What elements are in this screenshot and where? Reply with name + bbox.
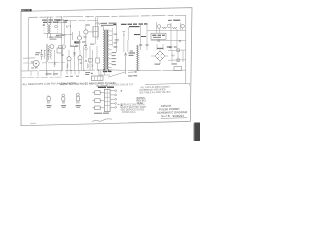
connector P1 bbox=[136, 45, 139, 71]
capacitor C13 bbox=[177, 59, 180, 62]
pilot lamp DS1 bbox=[55, 25, 58, 28]
capacitor C2 bbox=[47, 51, 50, 61]
wire right-mid verticals bbox=[141, 24, 147, 51]
wire lower-left dashed rail bbox=[22, 76, 62, 79]
transistor Q2 bbox=[77, 36, 81, 40]
wire TB1 to rail bbox=[47, 17, 50, 38]
pin number marks bbox=[121, 90, 122, 106]
resistor R7 bbox=[74, 52, 76, 57]
transformer T1 secondary winding bbox=[107, 30, 108, 69]
IC U4 body bbox=[104, 89, 110, 111]
capacitor C9 bbox=[169, 47, 177, 48]
wire gate input stubs bbox=[92, 93, 104, 108]
label stage row bbox=[70, 45, 87, 47]
svg-text:AM-1236: AM-1236 bbox=[22, 9, 31, 12]
capacitor C6 bbox=[85, 60, 87, 61]
wire second rail bbox=[56, 19, 98, 22]
label Q5 bbox=[35, 52, 41, 55]
logic gate B bbox=[95, 99, 101, 103]
wire arrow into P1 bbox=[128, 71, 137, 73]
tap voltage labels bbox=[112, 34, 118, 66]
transistor Q1 bbox=[84, 30, 88, 34]
connector J2 bbox=[57, 48, 62, 53]
label below lamp bbox=[31, 67, 37, 68]
label under P1 bbox=[128, 75, 137, 76]
transistor package Q11 outline bbox=[76, 93, 81, 108]
title block bbox=[157, 103, 188, 118]
svg-text:No # B: No # B bbox=[161, 114, 170, 118]
IC U3 label bbox=[98, 87, 114, 89]
relay K1 bbox=[23, 17, 35, 70]
wire top supply rail bbox=[29, 15, 186, 17]
wire Q1 Q2 leads bbox=[80, 26, 99, 50]
capacitor C15 bbox=[84, 37, 87, 38]
transistor Q5 bbox=[33, 60, 39, 66]
label below bridge bbox=[155, 63, 177, 64]
IC U4 caption bbox=[94, 113, 109, 114]
scan shadow edge bbox=[192, 124, 195, 142]
wire below-rail stubs bbox=[31, 70, 79, 76]
transistor Q8 bbox=[167, 24, 171, 28]
bridge rectifier BR1 bbox=[155, 51, 165, 61]
transistor Q15 bbox=[85, 48, 87, 50]
label fuse rating bbox=[64, 20, 67, 23]
connector J1 bbox=[174, 67, 182, 71]
capacitor C7 bbox=[80, 62, 82, 63]
resistor R2 bbox=[50, 51, 52, 59]
label bridge bbox=[157, 46, 171, 49]
wire main lower rail bbox=[22, 70, 186, 71]
transistor Q4 bbox=[78, 56, 82, 60]
transistor Q3 bbox=[67, 57, 71, 61]
transistor Q6 bbox=[50, 45, 54, 49]
junction dots bbox=[61, 16, 124, 71]
terminal block TB1 bbox=[44, 22, 58, 34]
wire T1 secondary lead bbox=[111, 28, 113, 46]
relay K3 bbox=[89, 59, 93, 63]
label fuse rating row bbox=[56, 35, 64, 38]
wire diagonal to switch bbox=[108, 72, 125, 77]
wire filter grid bbox=[168, 50, 186, 62]
net label +5V bbox=[129, 52, 136, 55]
wire mid verticals bbox=[62, 46, 97, 71]
label Q2 bbox=[74, 41, 79, 43]
smudge on bottom frame bbox=[30, 122, 36, 125]
transformer T1 secondary taps bbox=[109, 31, 113, 68]
IC U4 output pins bbox=[110, 90, 117, 108]
wire right rail vertical bbox=[185, 16, 187, 84]
wire mid vertical bus bbox=[95, 17, 98, 44]
label tap mid bbox=[114, 46, 118, 47]
transistor package Q9 outline bbox=[46, 96, 51, 108]
wire left vertical bus bbox=[62, 17, 71, 46]
capacitor C16 bbox=[130, 51, 133, 52]
wire T1 primary leads bbox=[101, 27, 104, 72]
net label AC LINE TO PWR bbox=[113, 23, 147, 37]
capacitor C8 bbox=[139, 45, 149, 46]
resistor R8 bbox=[87, 64, 93, 69]
svg-text:REPLACE ONLY WITH: REPLACE ONLY WITH bbox=[121, 103, 145, 106]
relay K5 bbox=[93, 27, 98, 38]
resistor R13 bbox=[58, 32, 73, 40]
capacitor C1 bbox=[40, 51, 43, 61]
resistor R5 bbox=[96, 23, 101, 25]
wire right-top cluster bbox=[147, 22, 186, 50]
junction dots mid-left bbox=[41, 50, 52, 51]
wire right lower rail bbox=[145, 83, 189, 85]
resistor R10 bbox=[162, 27, 167, 29]
transistor Q7 bbox=[157, 25, 161, 29]
resistor R12 bbox=[171, 55, 174, 57]
capacitor C14 bbox=[31, 62, 33, 63]
wire cluster bottom bbox=[44, 33, 62, 35]
junction dots T1 bottom bbox=[103, 69, 109, 72]
resistor R6 bbox=[67, 64, 69, 69]
label TB1 values bbox=[42, 19, 61, 25]
logic gate C bbox=[95, 106, 101, 110]
svg-text:FORM 223-A: FORM 223-A bbox=[122, 111, 136, 114]
relay K2 bbox=[96, 58, 100, 63]
rotary switch S2 bbox=[125, 53, 127, 75]
fuse F1 bbox=[58, 20, 64, 23]
scan shadow bar bbox=[194, 123, 200, 142]
net label +12V bbox=[168, 20, 180, 21]
resistor R1 bbox=[44, 51, 46, 59]
transistor Q14 bbox=[181, 24, 185, 28]
wire switch feed bbox=[117, 26, 129, 53]
transformer T1 label bbox=[101, 23, 117, 26]
capacitor C4 bbox=[85, 24, 90, 25]
inductor L1 bbox=[47, 25, 48, 34]
label below stubs bbox=[66, 76, 80, 77]
label stage values bbox=[74, 41, 95, 47]
capacitor C10 bbox=[157, 40, 181, 42]
label bias values bbox=[49, 36, 59, 39]
diode D1 bbox=[53, 60, 56, 67]
svg-text:EXACT FACTORY PART: EXACT FACTORY PART bbox=[121, 106, 147, 109]
wire dashed row rail bbox=[23, 62, 65, 64]
logic gate A bbox=[95, 91, 101, 95]
drawing number label AM-1236 bbox=[21, 9, 31, 12]
transistor package Q10 outline bbox=[61, 94, 66, 108]
capacitor C5 bbox=[61, 53, 76, 56]
resistor R11 bbox=[172, 27, 177, 29]
wire bridge leads bbox=[151, 48, 168, 64]
relay K4 bbox=[59, 46, 62, 49]
voltage regulator U2 bbox=[151, 33, 166, 39]
transformer T1 primary winding bbox=[103, 30, 104, 69]
svg-text:9030224: 9030224 bbox=[173, 114, 185, 118]
label T1 rating bbox=[103, 71, 112, 73]
inductor L2 bbox=[49, 25, 50, 34]
label output terminals bbox=[46, 72, 91, 75]
terminal strip TS1 bbox=[91, 70, 110, 81]
capacitor C12 bbox=[177, 49, 180, 52]
transformer T1 core bbox=[105, 29, 106, 69]
switch S1 bbox=[67, 25, 71, 27]
transistor Q13 bbox=[62, 45, 66, 49]
resistor R3 bbox=[48, 45, 50, 53]
notes block lower right bbox=[118, 103, 147, 114]
wire mid-left verticals bbox=[47, 44, 62, 76]
capacitor C11 bbox=[115, 40, 119, 41]
handwritten check mark bbox=[92, 119, 112, 122]
